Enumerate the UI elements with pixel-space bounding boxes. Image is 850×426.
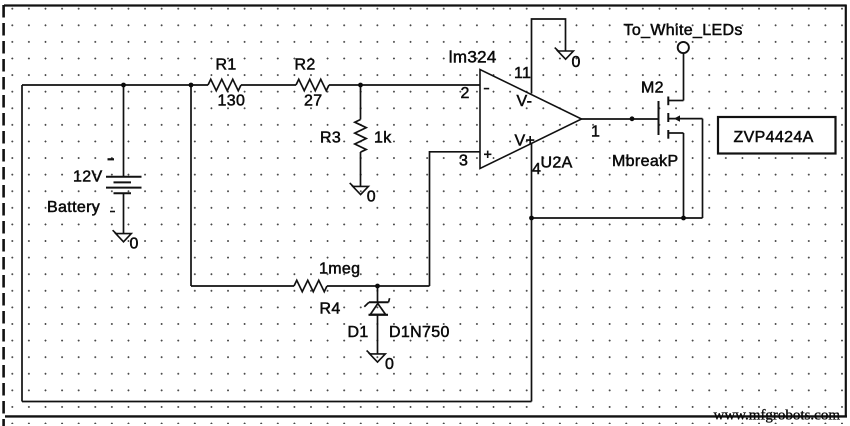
border left dashed (2, 5, 5, 426)
wire battery top lead (123, 85, 125, 177)
svg-text:V-: V- (517, 93, 533, 110)
svg-text:0: 0 (572, 54, 581, 71)
ground at op-amp pin11 (555, 48, 574, 60)
wire MOSFET bulk drop (702, 119, 704, 218)
ground at battery (113, 230, 132, 242)
svg-text:0: 0 (367, 189, 376, 206)
resistor R2 (296, 79, 329, 90)
wire op-amp pin11 to ground (532, 19, 566, 94)
junction zener top (375, 284, 380, 289)
border right (845, 5, 847, 418)
junction gate wire (630, 116, 635, 121)
svg-text:R2: R2 (295, 57, 316, 74)
svg-text:0: 0 (130, 236, 139, 253)
wire zener top lead (377, 286, 379, 302)
svg-text:M2: M2 (641, 80, 664, 97)
svg-text:To_White_LEDs: To_White_LEDs (624, 22, 743, 39)
svg-text:D1N750: D1N750 (389, 324, 450, 341)
svg-text:3: 3 (459, 153, 468, 170)
svg-text:D1: D1 (348, 324, 369, 341)
svg-text:0: 0 (385, 356, 394, 373)
svg-text:11: 11 (514, 65, 531, 82)
wire battery bottom lead (123, 194, 125, 234)
junction MOSFET source (681, 216, 686, 221)
border top (4, 4, 846, 6)
resistor R1 (208, 79, 241, 90)
svg-text:2: 2 (461, 85, 470, 102)
op-amp U2A (480, 70, 582, 169)
border bottom (5, 415, 847, 417)
svg-text:V+: V+ (515, 133, 536, 150)
LED output terminal circle (678, 42, 689, 53)
wire bottom return (22, 401, 532, 403)
junction R3 top (358, 83, 363, 88)
wire pin3 riser (429, 151, 431, 286)
svg-text:1: 1 (591, 124, 600, 141)
wire R3 bottom lead (360, 152, 362, 186)
svg-text:R1: R1 (216, 57, 237, 74)
ground at zener (367, 351, 386, 363)
svg-text:12V: 12V (73, 169, 103, 186)
svg-text:27: 27 (304, 93, 323, 110)
svg-text:130: 130 (218, 93, 246, 110)
wire zener bottom lead (377, 315, 379, 354)
wire op-amp output to gate (582, 118, 659, 120)
zener diode D1 (364, 298, 389, 315)
wire top rail (22, 84, 480, 86)
svg-text:1k: 1k (374, 130, 392, 147)
battery V1 12V (106, 159, 142, 211)
part box ZVP4424A (718, 117, 836, 154)
transistor M2 MOSFET (659, 97, 703, 139)
ground at R3 (350, 183, 369, 195)
wire R4 rail (191, 285, 430, 287)
svg-text:1meg: 1meg (319, 261, 360, 278)
wire R3 top lead (360, 85, 362, 120)
resistor R4 (294, 280, 327, 291)
svg-text:Battery: Battery (47, 199, 100, 216)
wire op-amp pin4 drop (531, 143, 533, 402)
wire R4 branch left drop (190, 85, 192, 286)
junction pin4 rail (529, 216, 534, 221)
wire pin3 horizontal (430, 151, 481, 153)
svg-text:lm324: lm324 (449, 48, 497, 67)
svg-text:ZVP4424A: ZVP4424A (734, 129, 814, 146)
wire LED terminal drop (683, 53, 685, 101)
svg-text:R3: R3 (320, 130, 341, 147)
svg-text:www.mfgrobots.com: www.mfgrobots.com (714, 408, 841, 424)
wire left side (21, 85, 23, 402)
resistor R3 (355, 120, 366, 153)
svg-text:MbreakP: MbreakP (612, 153, 678, 170)
junction battery top (121, 83, 126, 88)
wire MOSFET source drop (683, 133, 685, 218)
junction R4 branch (189, 83, 194, 88)
wire V+ rail to MOSFET (532, 217, 703, 219)
svg-text:U2A: U2A (541, 155, 573, 172)
svg-text:R4: R4 (320, 301, 341, 318)
